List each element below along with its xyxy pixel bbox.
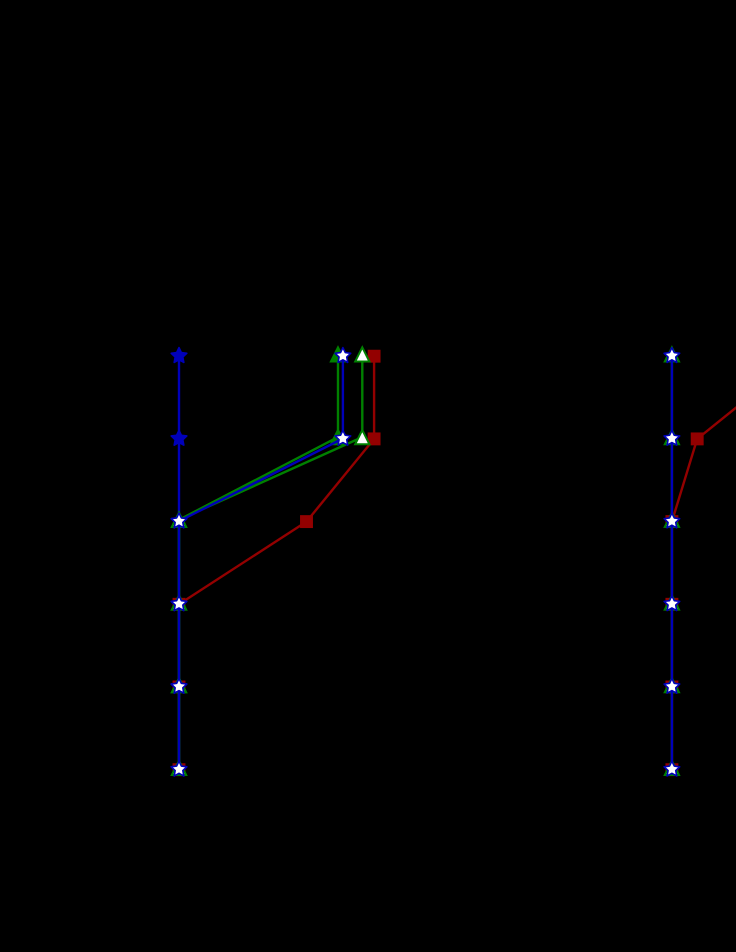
blue white-star series line (left panel) <box>179 356 343 770</box>
blue white-star series line (right panel) <box>671 356 673 770</box>
red square markers (left panel) <box>369 351 380 362</box>
white triangle markers with green edge (right panel) <box>665 347 679 361</box>
blue solid-star series line (left column) <box>178 356 180 770</box>
green solid triangle markers (left panel) <box>331 347 345 361</box>
red series line (left panel, square markers) <box>179 356 374 770</box>
red series line (right panel, square markers) <box>672 356 736 770</box>
blue solid star markers (left column) <box>171 348 187 363</box>
white star markers with blue edge (right panel) <box>664 348 680 363</box>
white star markers with blue edge (left panel) <box>335 348 351 363</box>
green white-triangle series line (right panel) <box>671 354 673 768</box>
white triangle markers with green edge (left panel) <box>355 347 369 361</box>
green solid-triangle series line (left panel) <box>179 354 338 768</box>
red square markers (right panel) <box>692 433 703 444</box>
green white-triangle series line (left panel) <box>179 354 362 768</box>
